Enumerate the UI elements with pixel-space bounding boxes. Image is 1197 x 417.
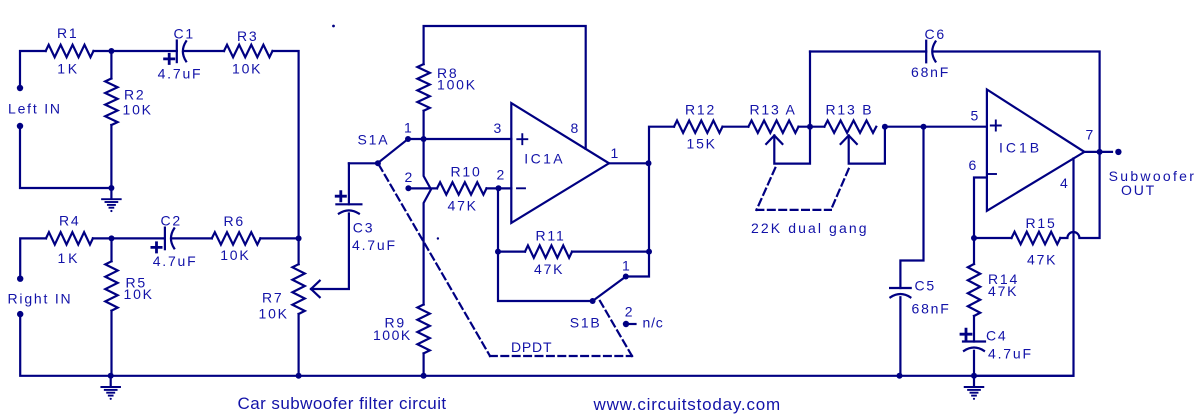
- svg-text:2: 2: [625, 303, 635, 319]
- wire C5 to ground rail: [899, 297, 901, 376]
- svg-text:10K: 10K: [232, 61, 262, 77]
- wire Right IN top terminal to R4: [20, 238, 46, 278]
- wiper arrow of R7: [311, 214, 349, 298]
- svg-text:4: 4: [1060, 175, 1070, 191]
- resistor R4: [46, 213, 93, 267]
- DPDT dashed linkage: [379, 165, 632, 356]
- svg-text:www.circuitstoday.com: www.circuitstoday.com: [593, 395, 781, 414]
- svg-text:10K: 10K: [220, 247, 250, 263]
- svg-text:47K: 47K: [1027, 252, 1057, 268]
- caption Car subwoofer filter circuit: [238, 394, 447, 413]
- svg-text:Right IN: Right IN: [8, 291, 73, 307]
- node R8 junction on pin3 wire: [421, 136, 427, 142]
- wire R3 to right vertical rail: [273, 51, 299, 238]
- svg-text:22K dual gang: 22K dual gang: [751, 220, 869, 236]
- dashed gang linkage of R13: [751, 168, 869, 236]
- wire ground rail: [111, 375, 1074, 377]
- wire R1 to node A: [94, 50, 112, 52]
- svg-text:1: 1: [611, 145, 621, 161]
- resistor R12: [674, 102, 722, 152]
- wire R8 junction down with jog to R10 node: [424, 139, 431, 305]
- svg-text:4.7uF: 4.7uF: [988, 346, 1033, 362]
- svg-text:47K: 47K: [448, 197, 478, 213]
- svg-text:68nF: 68nF: [912, 301, 951, 317]
- svg-text:R6: R6: [224, 213, 246, 229]
- node rail junction at R9: [421, 373, 427, 379]
- svg-text:S1A: S1A: [358, 132, 390, 148]
- svg-text:5: 5: [971, 108, 981, 124]
- svg-text:C3: C3: [353, 220, 375, 236]
- wire S1A throw2 to R10: [408, 187, 437, 189]
- node Right IN (input terminals): [8, 276, 73, 318]
- svg-text:68nF: 68nF: [911, 64, 950, 80]
- resistor R6: [212, 213, 261, 263]
- node output junction: [1097, 149, 1103, 155]
- resistor R5: [105, 238, 154, 375]
- capacitor C4: [961, 328, 1033, 376]
- wire C1 to R3: [184, 50, 225, 52]
- node rail junction at C4: [971, 373, 977, 379]
- wire Right IN bottom terminal to ground rail: [20, 314, 111, 376]
- wire IC1B pin4 to ground rail: [974, 159, 1074, 376]
- ground: [102, 188, 121, 212]
- capacitor C6: [911, 26, 950, 80]
- resistor R15: [974, 215, 1060, 268]
- node IC1A output junction: [646, 160, 652, 166]
- resistor R1: [46, 25, 94, 77]
- node R14/R15 junction: [971, 235, 977, 241]
- svg-text:R15: R15: [1026, 215, 1057, 231]
- wire Left IN top terminal to R1: [20, 51, 46, 88]
- svg-text:10K: 10K: [259, 306, 289, 322]
- svg-text:IC1B: IC1B: [999, 139, 1042, 155]
- stray dot: [437, 237, 439, 239]
- svg-text:R7: R7: [262, 290, 284, 306]
- svg-text:3: 3: [494, 120, 504, 136]
- svg-text:4.7uF: 4.7uF: [352, 237, 397, 253]
- wire IC1B output: [1084, 151, 1112, 153]
- svg-text:n/c: n/c: [643, 315, 664, 331]
- svg-text:Left IN: Left IN: [8, 101, 62, 117]
- svg-text:47K: 47K: [988, 283, 1018, 299]
- svg-text:C4: C4: [986, 328, 1008, 344]
- svg-text:8: 8: [571, 120, 581, 136]
- wire R11 right down to S1B throw1: [626, 252, 649, 277]
- caption www.circuitstoday.com: [593, 395, 781, 414]
- wire pin2 node down to S1B pole: [498, 189, 593, 302]
- node C junction R3-rail/R6/R7: [296, 235, 302, 241]
- svg-text:IC1A: IC1A: [524, 151, 565, 167]
- wire node A to C1: [111, 50, 176, 52]
- wire R10 to IC1A pin2: [487, 187, 512, 189]
- wire IC1A top feedback loop: [424, 26, 586, 149]
- svg-text:6: 6: [969, 157, 979, 173]
- wire R4 to node B: [93, 237, 112, 239]
- svg-text:OUT: OUT: [1121, 182, 1156, 198]
- svg-text:R4: R4: [59, 213, 81, 229]
- pin 3 label: [494, 120, 504, 136]
- svg-text:C2: C2: [161, 213, 183, 229]
- node A junction R1/R2/C1: [108, 48, 114, 54]
- svg-text:47K: 47K: [534, 261, 564, 277]
- svg-text:R11: R11: [536, 228, 566, 244]
- svg-text:10K: 10K: [123, 102, 153, 118]
- capacitor C3: [336, 163, 397, 253]
- resistor R3: [224, 28, 272, 77]
- capacitor C1: [158, 26, 203, 82]
- svg-text:Car subwoofer filter circuit: Car subwoofer filter circuit: [238, 394, 447, 413]
- wire n/c stub: [630, 315, 664, 331]
- svg-text:2: 2: [497, 167, 507, 183]
- wiper arrow of R13 B: [841, 127, 885, 164]
- node rail junction at R5: [108, 373, 114, 379]
- svg-text:100K: 100K: [373, 327, 412, 343]
- svg-text:R12: R12: [685, 102, 716, 118]
- wire R13A to R13B: [799, 126, 825, 128]
- resistor R8: [417, 64, 477, 139]
- svg-text:1K: 1K: [57, 61, 80, 77]
- wire output down to R11: [648, 163, 650, 251]
- wire output up to filter rail: [649, 127, 674, 164]
- wire node B to C2: [112, 237, 165, 239]
- switch S1A: [358, 119, 415, 191]
- resistor R14: [968, 238, 1019, 342]
- svg-text:DPDT: DPDT: [511, 339, 552, 355]
- wire Left IN bottom terminal to ground node: [20, 126, 111, 188]
- svg-text:C1: C1: [174, 26, 196, 42]
- node R11 right junction: [646, 249, 652, 255]
- svg-text:4.7uF: 4.7uF: [153, 253, 198, 269]
- switch S1B: [570, 258, 635, 331]
- resistor R9: [373, 305, 430, 376]
- svg-text:1: 1: [622, 258, 632, 274]
- wire C2 to R6: [172, 237, 212, 239]
- svg-text:R13 B: R13 B: [826, 102, 874, 118]
- resistor R10: [437, 164, 487, 214]
- svg-text:4.7uF: 4.7uF: [158, 66, 203, 82]
- svg-text:1: 1: [404, 119, 414, 135]
- svg-text:R13 A: R13 A: [750, 102, 797, 118]
- potentiometer R13 B: [824, 102, 876, 133]
- wire R12 to R13A: [723, 126, 749, 128]
- wire C6 loop top-right: [933, 52, 1100, 152]
- svg-text:15K: 15K: [687, 136, 717, 152]
- ground: [965, 376, 984, 400]
- svg-text:10K: 10K: [124, 286, 154, 302]
- node R13 junction: [807, 124, 813, 130]
- wire C6 feedback loop left: [809, 52, 811, 127]
- wiper arrow of R13 A: [766, 127, 810, 164]
- wire R13B to IC1B pin5: [885, 126, 987, 128]
- wire IC1B pin6 stub: [974, 178, 987, 239]
- node rail junction at C5: [897, 373, 903, 379]
- resistor R2: [105, 51, 153, 188]
- node Left IN (input terminals): [8, 85, 62, 129]
- svg-text:1K: 1K: [58, 250, 81, 266]
- svg-text:100K: 100K: [437, 77, 477, 93]
- capacitor C5: [890, 278, 951, 317]
- wire S1A throw1 to IC1A pin3: [408, 138, 511, 140]
- svg-text:C6: C6: [925, 26, 947, 42]
- svg-text:2: 2: [405, 169, 415, 185]
- wire IC1A output: [609, 162, 649, 164]
- node rail junction at R7: [296, 373, 302, 379]
- wire C6 loop top-left: [810, 50, 926, 52]
- node C5 tap junction: [921, 124, 927, 130]
- svg-text:R3: R3: [237, 28, 259, 44]
- node B junction R4/R5/C2: [109, 235, 115, 241]
- wire C3 to S1A pole: [349, 162, 378, 164]
- wire C5 tap down: [900, 127, 923, 288]
- svg-text:R2: R2: [124, 87, 146, 103]
- op-amp IC1B: [969, 90, 1096, 211]
- node R11 left junction: [495, 249, 501, 255]
- node R13B right junction: [882, 124, 888, 130]
- node ground junction (left input): [108, 185, 114, 191]
- ground: [101, 376, 120, 400]
- svg-text:S1B: S1B: [570, 315, 602, 331]
- potentiometer R7: [259, 238, 305, 375]
- potentiometer R13 A: [748, 102, 798, 133]
- wire R15 hop over pin4 line: [1060, 152, 1099, 238]
- svg-text:R10: R10: [451, 164, 482, 180]
- node Subwoofer OUT terminal: [1109, 149, 1197, 198]
- op-amp IC1A: [511, 103, 620, 223]
- svg-text:R1: R1: [57, 25, 79, 41]
- node pin2 junction: [496, 167, 507, 192]
- stray dot: [332, 25, 335, 28]
- wire R6 to vertical rail: [260, 237, 298, 239]
- capacitor C2: [152, 213, 198, 270]
- svg-text:C5: C5: [915, 278, 937, 294]
- resistor R11: [498, 228, 649, 278]
- svg-text:7: 7: [1086, 127, 1096, 143]
